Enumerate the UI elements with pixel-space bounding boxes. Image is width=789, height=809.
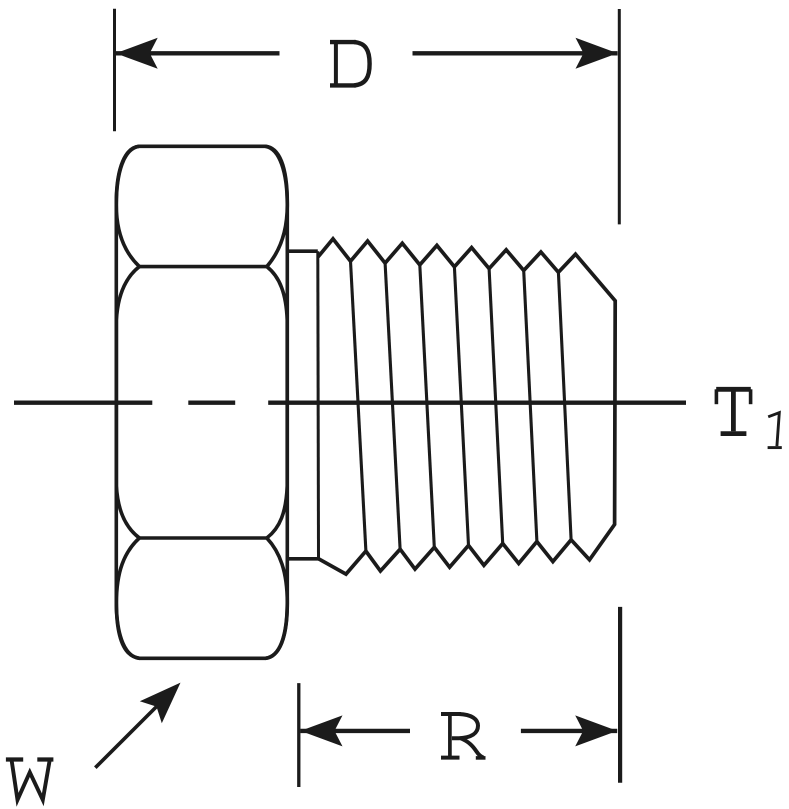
thread flank 5 xyxy=(489,269,503,544)
hex head outer silhouette xyxy=(116,146,287,658)
dimension R left extension line xyxy=(297,683,300,787)
thread top crest zigzag and end chamfer xyxy=(318,239,615,574)
centerline segment 3 xyxy=(268,401,686,405)
hex middle facet left arc xyxy=(116,267,139,538)
W leader arrow line xyxy=(95,707,156,768)
dimension D left arrowhead xyxy=(116,38,158,69)
label W xyxy=(6,760,54,800)
shoulder bottom line xyxy=(287,557,319,561)
centerline segment 1 xyxy=(14,401,152,405)
dimension D line right segment xyxy=(413,51,618,55)
label D xyxy=(330,42,370,85)
label T xyxy=(716,389,751,433)
dimension R line right segment xyxy=(521,729,617,733)
thread flank 1 xyxy=(351,261,366,551)
dimension D right arrowhead xyxy=(576,38,618,69)
W leader arrowhead xyxy=(140,683,181,724)
dimension R line left segment xyxy=(301,729,411,733)
dimension D left extension line xyxy=(113,9,116,132)
thread start flank xyxy=(316,251,320,559)
thread flank 6 xyxy=(524,271,537,542)
thread flank 2 xyxy=(385,263,400,549)
thread flank 3 xyxy=(420,265,435,547)
label R xyxy=(441,714,486,758)
dimension D right extension line xyxy=(618,9,621,224)
thread flank 4 xyxy=(454,267,468,546)
dimension R right extension line xyxy=(618,607,622,783)
shoulder top line xyxy=(287,249,318,253)
hex middle facet right arc xyxy=(267,267,287,538)
hex top facet right arc xyxy=(266,146,288,266)
hex top facet left arc xyxy=(116,146,139,266)
hex bottom facet left arc xyxy=(116,538,139,658)
centerline segment 2 xyxy=(188,401,235,405)
hex bottom facet right arc xyxy=(266,538,288,658)
label T subscript 1 xyxy=(768,413,782,448)
dimension R left arrowhead xyxy=(301,715,343,746)
thread flank 7 xyxy=(558,272,571,540)
hex facet boundary upper line xyxy=(139,265,266,269)
hex facet boundary lower line xyxy=(139,536,266,540)
dimension D line left segment xyxy=(116,51,280,55)
dimension R right arrowhead xyxy=(575,715,617,746)
